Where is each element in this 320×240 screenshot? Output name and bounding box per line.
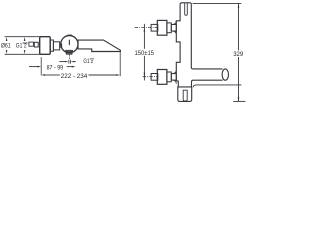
bottom union axis xyxy=(143,76,159,78)
svg-text:87 - 99: 87 - 99 xyxy=(47,64,64,71)
shower outlet thread xyxy=(66,51,72,54)
knob collar xyxy=(50,40,53,51)
bottom union stub xyxy=(151,74,158,81)
connector tab xyxy=(60,44,62,47)
svg-text:G1: G1 xyxy=(16,43,23,50)
dimension arrows D61 xyxy=(6,37,8,54)
lower right edge xyxy=(191,82,193,87)
handle circle xyxy=(61,36,78,53)
handle top cap xyxy=(67,35,72,36)
svg-text:2: 2 xyxy=(91,59,94,65)
svg-text:G1: G1 xyxy=(83,59,90,65)
thread dim lines (row y=61.6) xyxy=(59,61,65,63)
label G12 left xyxy=(16,43,28,50)
bottom extension line 329 xyxy=(233,100,245,102)
outlet cup xyxy=(178,87,192,102)
top union stub xyxy=(151,24,158,31)
top union step xyxy=(167,23,171,33)
bottom union escutcheon xyxy=(157,70,167,85)
svg-text:2: 2 xyxy=(24,44,27,50)
skirt line xyxy=(193,85,241,87)
column left profile xyxy=(176,4,180,87)
top union nut xyxy=(171,25,176,32)
top union axis xyxy=(135,27,159,29)
dim 150+-15 xyxy=(143,24,145,49)
column right edge with tube top xyxy=(191,4,222,69)
bottom union step xyxy=(167,72,171,82)
extension line knob bottom (left view) xyxy=(5,53,40,55)
top slot xyxy=(185,3,188,15)
dimension arrows G12 left xyxy=(24,37,26,54)
shower outlet band xyxy=(65,50,73,52)
dim 222-234 (row y=75.0) xyxy=(41,74,45,76)
dim 329 xyxy=(238,4,240,51)
svg-text:222 - 234: 222 - 234 xyxy=(61,73,88,80)
body left section xyxy=(53,42,59,50)
hose tube stub xyxy=(29,42,34,46)
extension line knob top (left view) xyxy=(5,36,40,38)
outlet axis dash xyxy=(69,55,71,59)
knob body xyxy=(40,37,51,55)
label G12 outlet xyxy=(83,59,94,65)
top union escutcheon xyxy=(157,20,167,35)
svg-text:Ø61: Ø61 xyxy=(1,43,11,50)
hose nut ring xyxy=(34,42,38,47)
bottom union nut xyxy=(171,74,176,81)
tube bottom xyxy=(192,80,223,81)
handle slot xyxy=(68,40,70,45)
svg-text:329: 329 xyxy=(233,51,243,58)
tube end ellipse xyxy=(222,69,228,80)
body bar and spout blade xyxy=(78,40,120,51)
outlet thread slot xyxy=(183,90,187,101)
svg-text:150±15: 150±15 xyxy=(135,50,155,57)
column top edge xyxy=(180,3,191,4)
top extension line 329 xyxy=(193,2,242,4)
dim 87-99 (row y=66.6) xyxy=(29,66,38,68)
